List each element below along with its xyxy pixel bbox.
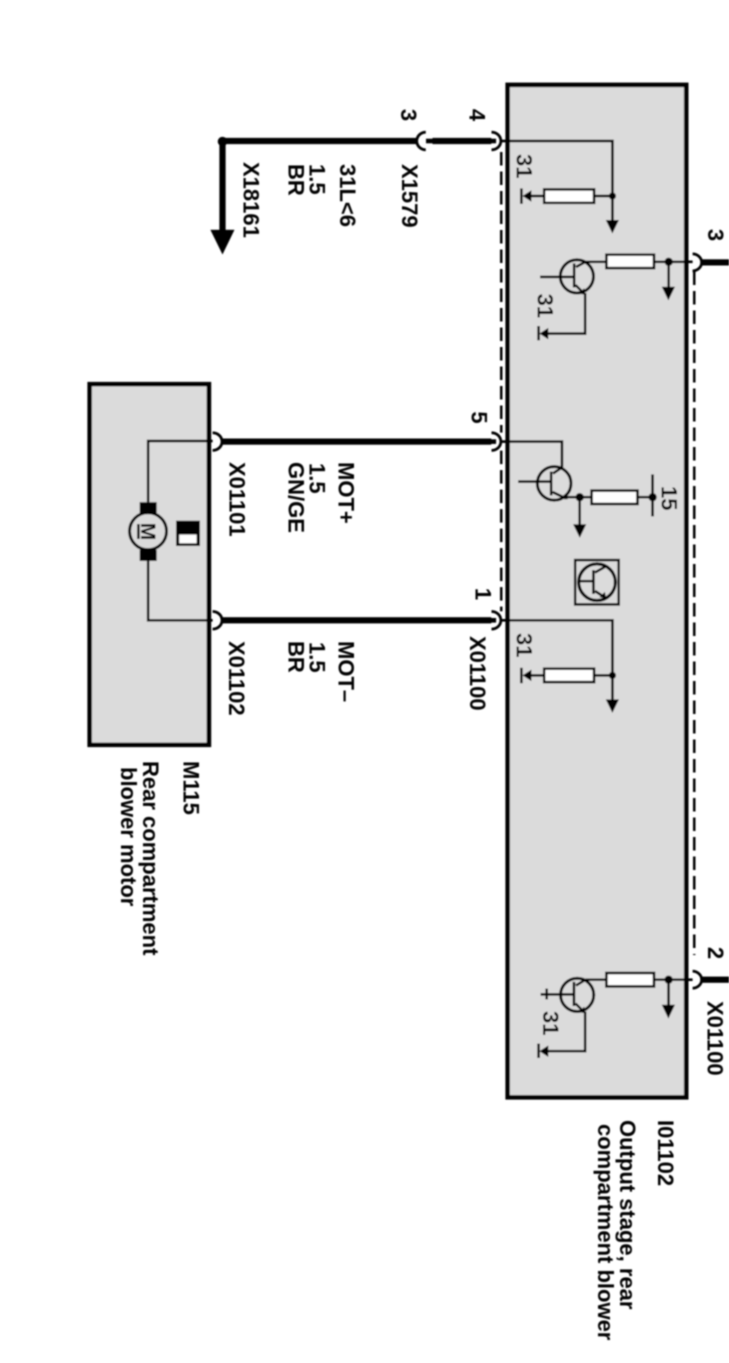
svg-text:31: 31 — [512, 154, 537, 178]
svg-text:X18161: X18161 — [239, 162, 264, 238]
wire pin4 to X1579 — [433, 138, 492, 144]
svg-text:1: 1 — [471, 588, 496, 600]
terminal 15 junction dot — [648, 493, 656, 501]
svg-text:31: 31 — [533, 294, 558, 318]
ground terminal 31 symbol D — [523, 670, 532, 682]
svg-text:31L<6: 31L<6 — [335, 164, 360, 227]
node B junction dot — [665, 258, 673, 266]
transistor Q-E emitter arrowhead — [579, 1007, 586, 1014]
svg-text:BR: BR — [284, 641, 309, 673]
arrow D (to terminal 31) — [606, 699, 619, 713]
transistor Q-C circle — [537, 467, 571, 501]
transistor Q-B emitter arrowhead — [579, 288, 586, 295]
motor brush left — [140, 502, 157, 513]
pin 5 male nub — [490, 439, 496, 444]
wire X1579 to node X18161 — [223, 138, 418, 144]
transistor Q-B collector diagonal — [576, 262, 586, 267]
svg-text:blower motor: blower motor — [116, 767, 141, 907]
boxed transistor base lead — [579, 580, 593, 583]
wire pin3 internal — [669, 260, 693, 263]
fan pictogram — [176, 521, 200, 546]
wire emitter E to ground — [548, 1012, 585, 1052]
svg-text:4: 4 — [465, 109, 490, 122]
svg-text:MOT+: MOT+ — [334, 462, 359, 524]
motor M115 circle — [130, 513, 167, 550]
wire collector E — [586, 978, 607, 981]
wire pin1 internal — [502, 620, 613, 675]
wire pin4 internal — [502, 141, 613, 196]
connector X1579 male nub — [426, 139, 433, 144]
wire emitter C to junction — [567, 496, 580, 499]
wire pin 3 external — [701, 259, 729, 265]
boxed transistor emitter diagonal — [595, 591, 605, 597]
wire pin5 to X01101 — [222, 439, 491, 445]
boxed transistor emitter arrowhead — [600, 592, 607, 599]
transistor Q-B emitter diagonal — [576, 285, 585, 294]
motor M underline — [137, 524, 140, 539]
arrow E (to terminal 31) — [662, 1005, 675, 1019]
wire pin1 to X01102 — [222, 617, 491, 623]
node A junction dot — [609, 192, 616, 199]
transistor Q-B base lead — [540, 276, 574, 279]
svg-text:BR: BR — [284, 164, 309, 196]
connector X01102 arc — [213, 612, 222, 630]
transistor Q-E circle — [561, 978, 594, 1011]
wire pin2 internal — [669, 978, 693, 981]
connector pin 2 arc — [693, 971, 702, 988]
arrow C (to ground) — [573, 524, 586, 538]
dashed connector line X01100 top — [693, 272, 696, 956]
connector pin 4 arc — [492, 132, 501, 150]
node D junction dot — [609, 672, 616, 679]
wire resistor C top lead — [638, 496, 653, 499]
transistor Q-E collector diagonal — [576, 980, 586, 986]
arrow A (to terminal 31) — [606, 220, 619, 234]
svg-text:I01102: I01102 — [653, 1120, 678, 1186]
connector pin 3 arc — [693, 254, 702, 271]
transistor Q-B circle — [560, 260, 593, 293]
svg-text:31: 31 — [538, 1011, 563, 1035]
wire resistor B top lead — [654, 260, 669, 263]
svg-text:31: 31 — [512, 633, 537, 657]
wire resistor A bottom lead — [531, 195, 544, 198]
connector X1579 arc — [417, 132, 426, 150]
pin 1 male nub — [490, 618, 496, 623]
motor brush right — [140, 550, 157, 561]
pin 4 male nub — [490, 139, 496, 144]
ground terminal 31 symbol B — [539, 328, 548, 339]
transistor Q-C emitter arrowhead — [561, 493, 568, 499]
svg-text:X01100: X01100 — [465, 636, 490, 711]
svg-text:5: 5 — [467, 411, 492, 423]
wire resistor A top lead — [594, 195, 612, 198]
transistor Q-E base tick — [545, 989, 548, 1000]
transistor Q-E base lead — [541, 993, 574, 996]
wire emitter B to ground — [548, 293, 585, 334]
wire X18161 arrow branch — [219, 142, 225, 231]
connector pin 5 arc — [492, 433, 501, 451]
wire pin5 internal — [502, 442, 562, 468]
boxed transistor base bar — [592, 570, 595, 594]
svg-text:MOT–: MOT– — [334, 641, 359, 702]
wire resistor E top lead — [654, 978, 669, 981]
svg-text:X01100: X01100 — [703, 1001, 728, 1076]
wire X01101 to motor — [148, 441, 212, 502]
ground terminal 31 symbol A — [523, 190, 532, 202]
connector X01101 arc — [213, 433, 222, 451]
wire junction to arrow D — [611, 675, 614, 699]
boxed transistor circle — [579, 564, 616, 601]
dashed connector line X01100 bottom — [500, 152, 503, 611]
transistor Q-C emitter diagonal — [553, 492, 567, 499]
wire resistor D top lead — [594, 674, 612, 677]
connector pin 1 arc — [492, 612, 501, 630]
ground terminal 31 symbol E — [539, 1046, 548, 1057]
terminal 15 bar — [651, 474, 654, 516]
transistor Q-E emitter diagonal — [576, 1004, 585, 1013]
wire collector B — [586, 260, 607, 263]
svg-text:compartment blower: compartment blower — [593, 1124, 618, 1341]
svg-text:3: 3 — [396, 109, 421, 121]
transistor Q-E base bar — [573, 982, 576, 1006]
svg-text:X01102: X01102 — [224, 641, 249, 716]
wire resistor C bottom lead — [580, 496, 592, 499]
resistor R-D — [544, 669, 594, 682]
svg-text:X1579: X1579 — [397, 164, 422, 228]
svg-text:3: 3 — [703, 229, 728, 241]
control unit I01102 box — [508, 85, 687, 1097]
resistor R-E — [606, 973, 654, 986]
wire pin 2 external — [701, 977, 729, 983]
resistor R-B — [606, 255, 654, 268]
wire junction to arrow A — [611, 196, 614, 220]
arrow B (to terminal 31) — [662, 287, 675, 301]
svg-text:GN/GE: GN/GE — [284, 462, 309, 533]
node E junction dot — [664, 976, 672, 984]
node X18161 junction dot — [218, 137, 227, 146]
transistor Q-C base lead — [518, 480, 551, 483]
wire X01102 to motor — [148, 561, 212, 620]
wire junction to arrow E — [667, 980, 670, 1005]
X18161 arrow head — [210, 230, 234, 255]
wire junction to arrow B — [667, 262, 670, 287]
svg-text:15: 15 — [657, 486, 682, 510]
boxed transistor symbol U-F — [575, 560, 619, 604]
svg-text:2: 2 — [703, 947, 728, 959]
resistor R-C — [592, 491, 638, 504]
transistor Q-C base bar — [550, 472, 553, 496]
transistor Q-B base bar — [573, 263, 576, 287]
svg-text:X01101: X01101 — [225, 462, 250, 537]
boxed transistor collector diagonal — [595, 567, 605, 573]
svg-text:M115: M115 — [179, 761, 204, 815]
motor M115 box — [90, 384, 209, 745]
wire junction to arrow C — [578, 497, 581, 524]
wire resistor D bottom lead — [531, 674, 544, 677]
transistor Q-C collector diagonal — [553, 468, 562, 474]
resistor R-A — [544, 189, 594, 202]
node C junction dot — [576, 493, 584, 501]
